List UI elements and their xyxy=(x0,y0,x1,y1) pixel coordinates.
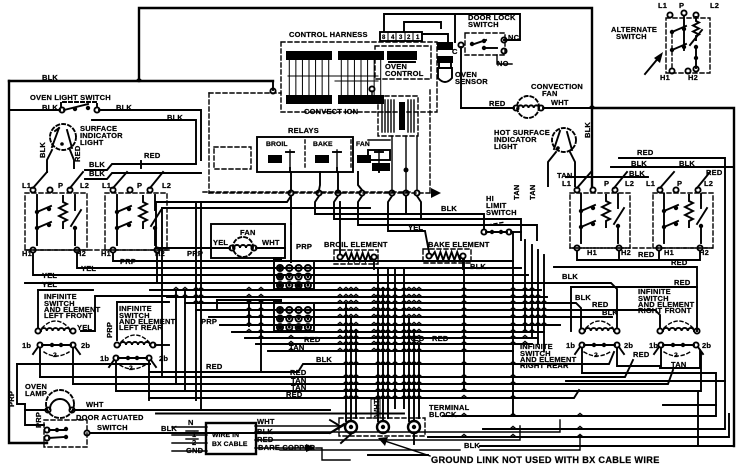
wire H terminals row left xyxy=(25,247,170,252)
right nest2 xyxy=(566,380,725,382)
svg-text:SENSOR: SENSOR xyxy=(455,77,488,86)
terminal block xyxy=(339,418,425,436)
svg-text:BLK: BLK xyxy=(441,204,457,213)
fan relay xyxy=(356,141,383,172)
svg-text:RED: RED xyxy=(73,145,82,162)
right 1b 2b row xyxy=(566,341,711,354)
svg-text:L1: L1 xyxy=(658,1,667,10)
left front 1b2b stubs xyxy=(33,347,80,354)
svg-text:BLOCK: BLOCK xyxy=(429,410,457,419)
inner dashed rect xyxy=(214,147,251,169)
right front switch box xyxy=(554,267,697,331)
svg-text:PRP: PRP xyxy=(296,242,312,251)
left vertical wires down xyxy=(162,202,201,408)
mid bus y219 xyxy=(334,196,521,240)
right nest3 xyxy=(409,352,701,391)
left rear 1b2b stubs xyxy=(109,360,156,367)
right vertical bus cluster xyxy=(513,232,544,416)
svg-text:TAN: TAN xyxy=(289,343,304,352)
wire from broil right xyxy=(373,260,375,269)
mid bus y202 xyxy=(156,196,291,202)
alternate switch arrow xyxy=(645,56,660,74)
svg-text:P: P xyxy=(137,181,142,190)
wire main top loop xyxy=(139,8,592,108)
svg-text:L2: L2 xyxy=(710,1,719,10)
svg-text:BLK: BLK xyxy=(470,262,486,271)
wire from oven light switch to right xyxy=(99,110,201,160)
ground link arrow xyxy=(385,441,430,456)
control harness connector block 2 xyxy=(338,51,384,104)
right nest4 xyxy=(428,414,729,437)
wire drop to control harness xyxy=(272,81,274,90)
relay sub-box separators xyxy=(305,140,351,170)
svg-text:2: 2 xyxy=(674,352,678,359)
left front element xyxy=(35,321,75,334)
wires door lock to oven control xyxy=(455,14,520,108)
wire BLK vertical right xyxy=(591,108,593,187)
surface switch right 2 xyxy=(653,172,713,248)
svg-text:L2: L2 xyxy=(625,179,634,188)
bottom band bumps xyxy=(343,361,583,437)
relay output terminal circles xyxy=(288,190,419,195)
svg-text:CONTROL: CONTROL xyxy=(385,69,424,78)
oven control internal wires xyxy=(369,86,417,190)
alternate switch xyxy=(666,10,710,73)
svg-text:LEFT FRONT: LEFT FRONT xyxy=(44,311,93,320)
svg-text:FAN: FAN xyxy=(240,228,256,237)
svg-text:BLK: BLK xyxy=(89,160,105,169)
svg-text:P: P xyxy=(679,1,684,10)
left rear element xyxy=(114,335,155,348)
svg-text:YEL: YEL xyxy=(408,223,423,232)
svg-text:H1: H1 xyxy=(664,248,674,257)
svg-text:PRP: PRP xyxy=(7,391,16,407)
svg-text:YEL: YEL xyxy=(213,238,228,247)
svg-text:2: 2 xyxy=(53,352,57,359)
oven control pin connector 8-1 xyxy=(380,32,422,41)
bottom bus 5 xyxy=(156,413,404,415)
svg-text:H1: H1 xyxy=(587,248,597,257)
wires from top loop to oven control connector xyxy=(384,14,455,42)
svg-text:BLK: BLK xyxy=(562,272,578,281)
svg-text:BLK: BLK xyxy=(602,308,618,317)
svg-text:BLK: BLK xyxy=(316,355,332,364)
svg-text:1b: 1b xyxy=(566,341,575,350)
svg-text:RED: RED xyxy=(144,151,161,160)
oven light switch xyxy=(9,102,100,113)
svg-text:SWITCH: SWITCH xyxy=(486,208,517,217)
left front 1b 2b contacts xyxy=(22,341,90,359)
left rear 1b 2b contacts xyxy=(100,354,168,372)
svg-text:SWITCH: SWITCH xyxy=(468,20,499,29)
svg-text:H1: H1 xyxy=(22,249,32,258)
svg-text:WHT: WHT xyxy=(257,417,275,426)
wire from bake right BLK xyxy=(462,259,464,269)
hi limit switch xyxy=(481,222,521,235)
wire BLK to indicator xyxy=(47,150,52,172)
svg-text:C: C xyxy=(452,47,458,56)
svg-text:RED: RED xyxy=(674,278,691,287)
svg-text:3: 3 xyxy=(399,35,403,41)
svg-text:CONVECT ION: CONVECT ION xyxy=(304,107,358,116)
svg-text:WIRE IN: WIRE IN xyxy=(212,432,239,439)
svg-text:RIGHT REAR: RIGHT REAR xyxy=(520,361,569,370)
wire fan feed xyxy=(156,202,230,248)
svg-text:SWITCH: SWITCH xyxy=(97,423,128,432)
bake element xyxy=(423,249,471,263)
door lock switch xyxy=(452,33,520,68)
svg-text:TAN: TAN xyxy=(512,185,521,200)
bake relay xyxy=(313,141,341,172)
oven control internal relay coils xyxy=(368,140,390,171)
wires relays to terminals xyxy=(291,172,362,190)
output arrow xyxy=(431,188,441,198)
svg-text:H1: H1 xyxy=(101,249,111,258)
door actuated switch xyxy=(44,420,90,447)
svg-text:RED: RED xyxy=(206,362,223,371)
svg-text:2: 2 xyxy=(594,352,598,359)
svg-text:RED: RED xyxy=(489,99,506,108)
wire left border vertical xyxy=(9,81,47,443)
svg-text:BROIL ELEMENT: BROIL ELEMENT xyxy=(324,240,388,249)
harness crossing wires xyxy=(288,76,378,81)
svg-text:BAKE: BAKE xyxy=(313,141,333,148)
svg-text:2b: 2b xyxy=(624,341,633,350)
svg-text:L2: L2 xyxy=(704,179,713,188)
terminal level line right xyxy=(663,404,716,406)
svg-text:1b: 1b xyxy=(100,354,109,363)
svg-text:NO: NO xyxy=(497,59,509,68)
svg-text:BLK: BLK xyxy=(42,73,58,82)
svg-text:WHT: WHT xyxy=(86,400,104,409)
oven sensor xyxy=(437,42,453,82)
svg-text:RELAYS: RELAYS xyxy=(288,126,319,135)
mid bus y231 YEL xyxy=(388,196,429,252)
svg-text:N: N xyxy=(188,418,194,427)
svg-text:2: 2 xyxy=(407,35,411,41)
svg-text:OVEN LIGHT SWITCH: OVEN LIGHT SWITCH xyxy=(30,93,111,102)
wire WHT from fan xyxy=(256,247,285,249)
svg-text:H2: H2 xyxy=(621,248,631,257)
fan motor xyxy=(229,237,256,257)
vertical bus 291 down xyxy=(290,196,292,224)
svg-text:H2: H2 xyxy=(688,73,698,82)
right inner border nest1 xyxy=(581,348,583,373)
right dials xyxy=(584,352,690,359)
fan box xyxy=(211,224,285,258)
convection fan xyxy=(513,96,543,118)
svg-text:BLK: BLK xyxy=(38,142,47,158)
svg-text:P: P xyxy=(58,181,63,190)
svg-text:8: 8 xyxy=(382,35,386,41)
svg-text:BX CABLE: BX CABLE xyxy=(212,441,248,448)
control harness dashed box xyxy=(281,42,437,112)
svg-text:PRP: PRP xyxy=(201,317,217,326)
connector block lower xyxy=(273,299,314,331)
svg-text:FAN: FAN xyxy=(542,89,558,98)
svg-text:2b: 2b xyxy=(702,341,711,350)
svg-text:LIGHT: LIGHT xyxy=(494,142,518,151)
svg-text:H1: H1 xyxy=(660,73,670,82)
svg-text:WHT: WHT xyxy=(372,399,381,417)
control box dashed outline xyxy=(209,90,430,193)
svg-text:L2: L2 xyxy=(80,181,89,190)
wire BLK from door switch xyxy=(90,425,344,433)
svg-text:1b: 1b xyxy=(22,341,31,350)
svg-text:FAN: FAN xyxy=(356,141,370,148)
svg-text:SWITCH: SWITCH xyxy=(616,32,647,41)
mid vertical wires xyxy=(217,300,274,372)
svg-text:CONTROL HARNESS: CONTROL HARNESS xyxy=(289,30,368,39)
node junction at 139,81 xyxy=(136,78,142,81)
right switches drop wires xyxy=(619,251,659,258)
vertical bus 319 down broil xyxy=(339,202,341,253)
mid bus y213 to hi-limit BLK xyxy=(315,196,484,228)
svg-text:RED: RED xyxy=(408,334,425,343)
svg-text:BLK: BLK xyxy=(583,122,592,138)
wire RED to convection fan xyxy=(461,107,514,109)
svg-text:RED: RED xyxy=(633,350,650,359)
right 2b-1b U link xyxy=(617,348,661,366)
left 1b2b drop wires xyxy=(40,348,149,400)
bus lines central xyxy=(150,287,565,351)
broil relay xyxy=(266,141,294,172)
svg-text:LEFT REAR: LEFT REAR xyxy=(119,323,163,332)
svg-text:RED: RED xyxy=(638,250,655,259)
oven control dashed box xyxy=(375,46,431,79)
svg-text:BLK: BLK xyxy=(89,169,105,178)
svg-text:1: 1 xyxy=(416,35,420,41)
wire WHT from fan xyxy=(543,107,592,109)
svg-text:2b: 2b xyxy=(81,341,90,350)
right rear element xyxy=(579,321,619,334)
svg-text:4: 4 xyxy=(391,35,395,41)
broil element xyxy=(334,250,378,264)
wire left feed BLK horizontal xyxy=(9,80,273,82)
wire in bx cable label xyxy=(212,432,248,448)
surface switch left-rear xyxy=(105,172,167,250)
dashed output line xyxy=(203,191,411,193)
oven lamp xyxy=(45,390,74,418)
svg-text:2: 2 xyxy=(129,365,133,372)
wire in bx cable box xyxy=(206,423,256,454)
screw drop stubs xyxy=(341,434,414,444)
surface indicator light xyxy=(50,124,76,150)
svg-text:BLK: BLK xyxy=(161,424,177,433)
svg-text:RED: RED xyxy=(432,334,449,343)
wire BLK second run xyxy=(92,120,196,163)
terminal block feed diagonals xyxy=(330,420,344,433)
svg-text:L1: L1 xyxy=(562,179,571,188)
right front element xyxy=(657,321,699,334)
svg-text:WHT: WHT xyxy=(262,238,280,247)
center vertical grid xyxy=(346,259,464,421)
svg-text:RED: RED xyxy=(637,148,654,157)
svg-text:P: P xyxy=(604,179,609,188)
wire to door switch xyxy=(25,404,44,425)
svg-text:TAN: TAN xyxy=(528,185,537,200)
surface switch left-front xyxy=(25,172,87,250)
svg-text:RED: RED xyxy=(304,335,321,344)
svg-text:LAMP: LAMP xyxy=(25,389,47,398)
svg-text:BLK: BLK xyxy=(42,103,58,112)
oven control internal transformer xyxy=(378,96,418,136)
wire WHT from oven lamp xyxy=(74,409,330,411)
svg-text:2b: 2b xyxy=(159,354,168,363)
svg-text:BROIL: BROIL xyxy=(266,141,288,148)
wire from fan junction to right border xyxy=(592,108,734,446)
svg-text:L1: L1 xyxy=(646,179,655,188)
svg-text:BLK: BLK xyxy=(464,441,480,450)
WHT vertical label xyxy=(371,399,380,418)
control harness connector block 1 xyxy=(286,51,332,104)
svg-text:P: P xyxy=(677,179,682,188)
mid bus y208 left xyxy=(162,207,370,209)
svg-text:L2: L2 xyxy=(162,181,171,190)
svg-text:WHT: WHT xyxy=(551,98,569,107)
connector block upper xyxy=(273,257,314,289)
right H terminals row xyxy=(570,245,712,250)
svg-text:BLK: BLK xyxy=(575,293,591,302)
wires hot surface light down xyxy=(548,152,575,186)
surface switch right 1 xyxy=(570,172,630,248)
svg-text:PRP: PRP xyxy=(105,322,114,338)
left rear box lines xyxy=(117,302,169,345)
left feed vertical to lamp xyxy=(17,363,150,365)
svg-text:LIGHT: LIGHT xyxy=(80,138,104,147)
hot surface indicator light xyxy=(552,128,576,152)
relays box xyxy=(257,137,353,172)
terminal drop wires right xyxy=(406,196,421,219)
mid bus y225 xyxy=(358,196,537,240)
left front box lines xyxy=(38,290,176,328)
svg-text:GROUND LINK NOT USED WITH BX C: GROUND LINK NOT USED WITH BX CABLE WIRE xyxy=(431,455,660,465)
svg-text:BAKE ELEMENT: BAKE ELEMENT xyxy=(428,240,490,249)
wire RED from indicator xyxy=(70,150,74,168)
right nest5 xyxy=(480,445,734,447)
oven control connector block xyxy=(387,51,417,62)
svg-text:YEL: YEL xyxy=(42,280,57,289)
